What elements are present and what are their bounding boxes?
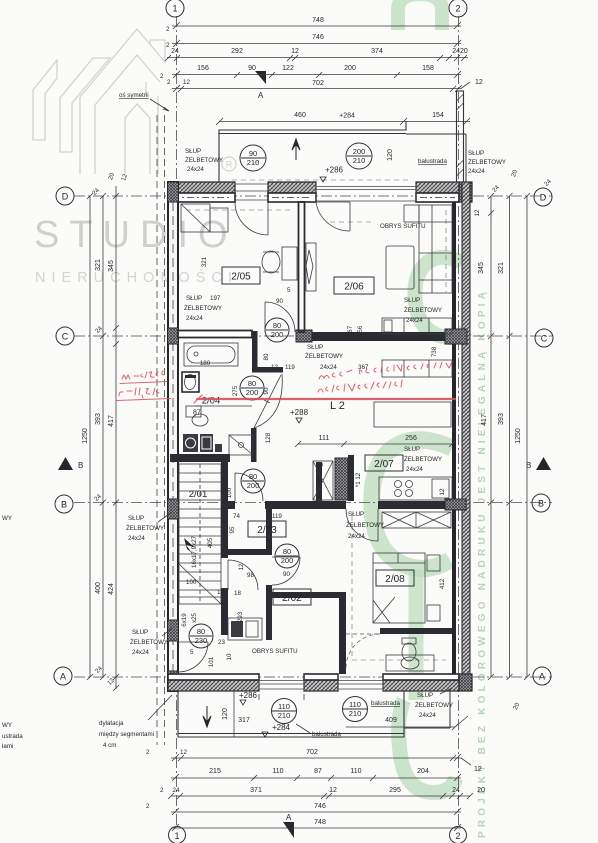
svg-text:24x24: 24x24 <box>468 168 485 175</box>
svg-text:80: 80 <box>197 627 205 636</box>
top dim row 24 292 12 374 2420 <box>167 57 468 59</box>
room label 2/06 <box>334 277 374 294</box>
red note left U=11,3 <box>119 388 159 398</box>
wardrobe X 2/08 <box>382 512 451 528</box>
svg-text:C: C <box>541 334 548 344</box>
grid circle B right <box>532 494 550 512</box>
coffee table 2/06 <box>386 246 414 289</box>
svg-text:746: 746 <box>312 34 324 41</box>
logo right slope <box>146 82 158 174</box>
bath2 door dashed arc <box>346 634 380 668</box>
svg-text:12: 12 <box>475 79 483 86</box>
grid line 2 vertical <box>458 16 460 828</box>
svg-text:110: 110 <box>349 700 361 709</box>
door circle 80/200 hall 2/05 <box>265 318 289 342</box>
W1 column block mid <box>296 330 312 342</box>
door circle 90/210 balcony <box>240 145 266 171</box>
red note left m=76 <box>122 371 164 379</box>
svg-text:B: B <box>61 500 67 510</box>
svg-text:345: 345 <box>108 260 115 272</box>
svg-text:409: 409 <box>385 717 397 724</box>
svg-text:20: 20 <box>477 787 485 794</box>
svg-text:1: 1 <box>172 4 177 14</box>
svg-text:87: 87 <box>314 768 322 775</box>
room label 2/03 <box>248 521 286 537</box>
svg-text:80: 80 <box>273 321 281 330</box>
svg-text:293: 293 <box>237 611 244 622</box>
bottom wall corner block <box>459 674 472 691</box>
bottom dim row 215 110 87 110 204 <box>171 777 461 779</box>
svg-text:80: 80 <box>249 472 257 481</box>
right wall inner leaf <box>452 202 456 674</box>
svg-text:200: 200 <box>247 481 260 490</box>
svg-text:18: 18 <box>234 590 241 597</box>
svg-text:111: 111 <box>319 435 330 442</box>
room label 2/07 <box>365 455 403 471</box>
svg-text:230: 230 <box>195 636 208 645</box>
axis D dash-dot <box>74 195 552 197</box>
svg-text:400: 400 <box>95 582 102 594</box>
grid line 1 vertical <box>176 16 178 828</box>
svg-text:1: 1 <box>174 831 179 841</box>
left wall column block at C <box>168 328 179 344</box>
svg-text:210: 210 <box>353 156 366 165</box>
svg-text:95: 95 <box>229 526 236 533</box>
top dim row 702 <box>172 88 461 90</box>
grid circle D right <box>534 188 552 206</box>
svg-text:2: 2 <box>160 787 164 794</box>
door circle 110/210 terrace left <box>272 699 297 724</box>
svg-text:5: 5 <box>190 649 194 656</box>
green glyph stem <box>409 570 424 700</box>
svg-text:SŁUP: SŁUP <box>132 629 148 636</box>
svg-text:393: 393 <box>95 413 102 425</box>
door arc 2/08 <box>346 509 378 541</box>
shower corner <box>229 435 253 455</box>
svg-text:12: 12 <box>329 787 337 794</box>
svg-text:SŁUP: SŁUP <box>185 148 201 155</box>
svg-text:74: 74 <box>233 513 240 520</box>
svg-text:2: 2 <box>455 4 460 14</box>
grid circle D left <box>56 187 74 205</box>
svg-text:SŁUP: SŁUP <box>404 297 420 304</box>
svg-text:2: 2 <box>455 831 460 841</box>
bottom dim row 746 <box>171 811 461 813</box>
svg-text:4 cm: 4 cm <box>103 742 116 749</box>
svg-text:393: 393 <box>498 413 505 425</box>
top wall segment 3 hatched <box>416 182 459 202</box>
svg-text:101: 101 <box>208 656 215 667</box>
svg-text:292: 292 <box>231 48 243 55</box>
svg-text:80: 80 <box>283 547 291 556</box>
room label 2/05 <box>222 267 260 284</box>
red ink group <box>117 362 455 403</box>
kitchen dims 111 256 <box>298 443 452 445</box>
door arc top room 2/05 <box>235 202 268 235</box>
svg-text:2: 2 <box>166 42 170 49</box>
svg-text:748: 748 <box>312 17 324 24</box>
svg-text:5: 5 <box>287 287 291 294</box>
svg-text:2: 2 <box>160 73 164 80</box>
kitchen table 2/07 <box>374 402 451 427</box>
up arrow balcony <box>292 139 300 160</box>
W6 column block right end <box>445 499 466 510</box>
top wall corner block <box>459 182 472 202</box>
svg-text:210: 210 <box>247 158 260 167</box>
svg-text:R: R <box>226 160 233 170</box>
laundry blocks under 2/02 <box>228 618 262 640</box>
sideboard cabinets 2/06 <box>382 318 452 334</box>
svg-text:SŁUP: SŁUP <box>348 511 364 518</box>
svg-text:ŻELBETOWY: ŻELBETOWY <box>404 456 442 463</box>
svg-text:SŁUP: SŁUP <box>186 295 202 302</box>
svg-text:405: 405 <box>207 537 214 548</box>
svg-text:197: 197 <box>210 295 221 302</box>
logo chevron 1 <box>33 60 57 140</box>
grid circle C left <box>56 327 74 345</box>
interior wall W3 vertical stairs right <box>221 462 228 558</box>
wc 2/04 <box>192 414 208 426</box>
svg-text:+284: +284 <box>272 723 291 732</box>
room label 2/08 <box>376 570 414 586</box>
svg-text:+286: +286 <box>325 166 344 175</box>
top dim row 156 90 122 200 158 <box>172 74 461 76</box>
svg-text:119: 119 <box>272 513 282 520</box>
svg-text:128: 128 <box>265 432 272 443</box>
washbasin counter bath2 <box>386 655 434 671</box>
svg-text:295: 295 <box>389 787 401 794</box>
svg-text:100: 100 <box>186 579 197 586</box>
right dim col 345 417 <box>490 196 492 677</box>
kitchen counter lower with stove <box>379 477 452 500</box>
87 box bath <box>186 406 201 417</box>
svg-text:ŻELBETOWY: ŻELBETOWY <box>126 525 164 532</box>
svg-text:24x24: 24x24 <box>348 533 365 540</box>
svg-text:80: 80 <box>263 353 270 360</box>
svg-text:345: 345 <box>478 262 485 274</box>
svg-text:ŻELBETOWY: ŻELBETOWY <box>415 702 453 709</box>
svg-text:417: 417 <box>481 414 488 426</box>
terrace divider line <box>233 691 235 737</box>
svg-text:60: 60 <box>316 462 323 469</box>
left wall <box>168 182 178 691</box>
red underline main <box>197 398 455 400</box>
top balcony outline <box>219 121 406 182</box>
svg-text:90: 90 <box>248 65 256 72</box>
green watermark group <box>372 0 488 838</box>
axis C dash-dot <box>74 335 552 337</box>
door circle 80/200 bath <box>240 376 264 400</box>
axis A dash-dot <box>74 676 552 678</box>
chair 2/05 <box>262 251 280 273</box>
svg-text:90: 90 <box>283 571 290 578</box>
svg-text:100: 100 <box>226 487 233 498</box>
nightstand lower 2/08 <box>427 605 440 621</box>
green glyph top <box>398 0 442 30</box>
top dim row 748 <box>172 25 461 27</box>
interior wall W4 door head stub <box>252 367 283 373</box>
svg-text:180: 180 <box>200 360 211 367</box>
svg-text:2/08: 2/08 <box>385 574 405 585</box>
svg-text:2420: 2420 <box>452 48 468 55</box>
svg-text:154: 154 <box>432 112 444 119</box>
svg-text:balustrada: balustrada <box>418 158 447 165</box>
furniture group <box>178 139 452 727</box>
door arc 2/05 to hall <box>265 302 295 332</box>
interior wall W10 vertical kitchen left <box>316 462 322 501</box>
wardrobe 2/05 <box>181 204 210 232</box>
svg-text:90: 90 <box>249 149 257 158</box>
door arc hall to 2/03 <box>235 473 263 501</box>
svg-text:412: 412 <box>439 578 446 589</box>
grid circle A left <box>54 667 72 685</box>
svg-text:12: 12 <box>271 364 278 371</box>
couch 2/06 <box>419 205 452 293</box>
svg-text:12: 12 <box>474 209 481 216</box>
svg-text:2: 2 <box>167 79 171 86</box>
interior wall W4 vertical bath right <box>252 331 258 368</box>
sink kitchenette dark <box>200 434 213 452</box>
top wall segment 1 hatched <box>168 182 235 202</box>
bottom dim row 24 371 12 295 24 20 <box>171 795 470 797</box>
svg-text:748: 748 <box>314 819 326 826</box>
svg-text:OBRYS SUFITU: OBRYS SUFITU <box>252 648 298 655</box>
svg-text:oś symetrii: oś symetrii <box>119 92 149 99</box>
svg-text:374: 374 <box>371 48 383 55</box>
svg-text:ŻELBETOWY: ŻELBETOWY <box>346 522 384 529</box>
svg-text:między segmentami: między segmentami <box>99 731 154 738</box>
svg-text:256: 256 <box>405 435 417 442</box>
interior wall W12 horizontal 2/02 bottom <box>272 592 346 598</box>
svg-text:746: 746 <box>314 803 326 810</box>
bottom window opening 110 left glazing <box>259 674 304 691</box>
svg-text:367: 367 <box>347 325 354 336</box>
grid circle 1 bottom <box>169 827 186 843</box>
svg-text:417: 417 <box>108 415 115 427</box>
interior wall W9 vertical 2/02 left <box>266 509 272 555</box>
top dim row 746 <box>172 43 461 45</box>
registered mark circle <box>222 157 236 171</box>
window sill bottom left <box>259 694 304 700</box>
svg-text:110: 110 <box>278 702 290 711</box>
svg-text:321: 321 <box>201 256 208 267</box>
door circle 80/200 2/02 <box>275 544 299 568</box>
svg-text:210: 210 <box>278 711 291 720</box>
svg-text:200: 200 <box>281 556 294 565</box>
svg-text:275: 275 <box>232 385 239 396</box>
interior wall W8 horizontal 2/03 bottom <box>228 549 272 555</box>
ceiling dashed 2/06 <box>330 210 450 292</box>
svg-text:12: 12 <box>291 48 299 55</box>
svg-text:+286: +286 <box>239 691 258 700</box>
svg-text:A: A <box>286 813 292 822</box>
svg-text:ŻELBETOWY: ŻELBETOWY <box>130 639 168 646</box>
left dim col 321 393 400 <box>102 196 104 677</box>
svg-text:12: 12 <box>474 766 482 773</box>
svg-text:16x17,9x27: 16x17,9x27 <box>191 535 198 568</box>
svg-text:24: 24 <box>171 48 179 55</box>
svg-text:371: 371 <box>250 787 262 794</box>
bottom wall segment 3 <box>383 674 459 691</box>
labels group <box>2 143 522 750</box>
left dim col 1250 <box>89 196 91 677</box>
kitchen wall stub <box>348 455 354 501</box>
washer kitchenette dark <box>183 434 198 452</box>
corridor door arc <box>228 560 258 590</box>
svg-text:2: 2 <box>146 803 150 810</box>
svg-text:2/02: 2/02 <box>282 593 302 604</box>
balcony railing column <box>457 91 464 182</box>
entrance door arc <box>178 642 208 672</box>
section A marker top <box>255 71 266 84</box>
svg-text:702: 702 <box>312 80 324 87</box>
svg-text:24x24: 24x24 <box>406 466 423 473</box>
interior wall W5 under bath <box>170 454 230 462</box>
svg-text:23: 23 <box>218 639 225 646</box>
svg-text:18: 18 <box>217 589 224 596</box>
section B marker left <box>58 457 73 470</box>
down arrow terrace <box>203 706 211 727</box>
door circle 80/200 2/03 <box>241 469 265 493</box>
nightstand upper 2/08 <box>427 555 440 571</box>
svg-text:2/01: 2/01 <box>189 489 208 500</box>
svg-text:12: 12 <box>439 488 446 495</box>
toilet bath2 <box>402 638 416 644</box>
stairs 2/01 <box>179 464 221 604</box>
svg-text:110: 110 <box>350 768 361 775</box>
svg-text:2/03: 2/03 <box>257 525 277 536</box>
svg-text:256: 256 <box>357 325 364 336</box>
svg-text:ŻELBETOWY: ŻELBETOWY <box>184 305 222 312</box>
svg-text:12: 12 <box>183 79 190 86</box>
svg-text:+288: +288 <box>290 408 309 417</box>
svg-text:SŁUP: SŁUP <box>404 446 420 453</box>
svg-text:90: 90 <box>276 298 283 305</box>
door circle 80/230 entrance <box>189 624 213 648</box>
ceiling dashed 2/05 <box>186 209 294 211</box>
svg-text:D: D <box>62 192 69 202</box>
bottom dim row 748 <box>171 827 461 829</box>
svg-text:STUDIO: STUDIO <box>34 214 238 256</box>
svg-text:119: 119 <box>285 364 295 371</box>
svg-text:24: 24 <box>173 787 180 794</box>
left wall column block top corner <box>168 182 179 202</box>
svg-text:12: 12 <box>180 749 187 756</box>
green glyph bottom bowl <box>399 700 456 792</box>
neighbour wall dashed double line <box>156 115 158 745</box>
svg-text:2/05: 2/05 <box>231 272 251 283</box>
bed 2/08 <box>373 553 425 623</box>
interior wall W14 bath2 top <box>380 628 452 634</box>
svg-text:2: 2 <box>146 749 150 756</box>
gray watermark group <box>33 29 238 286</box>
svg-text:24x24: 24x24 <box>132 649 149 656</box>
logo chevron 2 <box>60 58 110 152</box>
svg-text:C: C <box>62 332 69 342</box>
svg-text:OBRYS SUFITU: OBRYS SUFITU <box>380 223 426 230</box>
left wall column block bottom corner <box>168 671 179 691</box>
svg-text:6x19: 6x19 <box>181 613 188 627</box>
svg-text:A: A <box>60 672 66 682</box>
svg-text:120: 120 <box>387 149 394 161</box>
svg-text:B: B <box>538 499 544 509</box>
section A marker bottom <box>283 822 294 838</box>
bottom terrace outline <box>178 691 404 737</box>
svg-text:PROJEKT BEZ KOLOROWEGO NADRUKU: PROJEKT BEZ KOLOROWEGO NADRUKU JEST NIEL… <box>477 288 488 838</box>
left dim col 345 417 424 <box>115 186 117 689</box>
svg-text:ŻELBETOWY: ŻELBETOWY <box>404 307 442 314</box>
svg-text:10: 10 <box>226 653 233 660</box>
svg-text:2/07: 2/07 <box>374 459 394 470</box>
svg-text:dylatacja: dylatacja <box>99 720 124 727</box>
door arc balcony 2/06 <box>316 202 350 231</box>
svg-text:738: 738 <box>431 346 438 357</box>
svg-text:200: 200 <box>344 65 356 72</box>
grid circle A right <box>533 667 551 685</box>
tv bench 2/06 <box>306 243 316 291</box>
red note line 1 kociol <box>319 362 452 379</box>
svg-text:321: 321 <box>95 259 102 271</box>
svg-text:SŁUP: SŁUP <box>128 515 144 522</box>
svg-text:90: 90 <box>263 387 270 394</box>
svg-text:B: B <box>78 461 83 470</box>
left wall column block lower <box>168 620 179 641</box>
svg-text:80: 80 <box>248 379 256 388</box>
ceiling dashed 2/08 <box>352 516 446 660</box>
svg-text:2: 2 <box>166 26 170 33</box>
svg-text:D: D <box>540 193 547 203</box>
svg-text:317: 317 <box>238 717 250 724</box>
bottom dim row 702 <box>171 757 461 759</box>
bottom wall segment 2 <box>304 674 338 691</box>
svg-text:24x24: 24x24 <box>128 535 145 542</box>
washbasin 2/04 <box>182 372 199 392</box>
svg-text:+284: +284 <box>339 113 355 120</box>
svg-text:24x24: 24x24 <box>419 712 436 719</box>
svg-text:NIERUCHOMOŚCI: NIERUCHOMOŚCI <box>35 268 238 286</box>
svg-text:24x24: 24x24 <box>320 364 337 371</box>
svg-text:2/06: 2/06 <box>344 282 364 293</box>
W1 column block right end <box>445 329 467 344</box>
svg-text:110: 110 <box>272 768 283 775</box>
svg-text:98: 98 <box>247 572 254 579</box>
axis B dash-dot <box>74 502 552 504</box>
svg-text:2/04: 2/04 <box>202 396 221 407</box>
grid circle 2 bottom <box>450 827 467 843</box>
svg-text:SŁUP: SŁUP <box>307 344 323 351</box>
svg-text:200: 200 <box>246 388 259 397</box>
svg-text:460: 460 <box>294 112 306 119</box>
svg-text:SŁUP: SŁUP <box>468 150 484 157</box>
stairs walk arrow <box>184 538 199 562</box>
interior wall W1 horizontal left <box>178 331 252 338</box>
green glyph G upper right <box>415 257 466 337</box>
svg-text:204: 204 <box>417 768 429 775</box>
svg-text:ŻELBETOWY: ŻELBETOWY <box>185 157 223 164</box>
dimension rows group <box>82 17 553 831</box>
door arc bath 2/04 <box>254 374 282 428</box>
top window opening 200 glazing <box>316 182 416 202</box>
bathtub 2/04 <box>184 343 238 366</box>
logo house outline <box>80 29 165 174</box>
svg-text:ustrada: ustrada <box>2 733 23 740</box>
svg-text:ŻELBETOWY: ŻELBETOWY <box>305 353 343 360</box>
building walls group <box>168 91 473 737</box>
svg-text:SŁUP: SŁUP <box>417 692 433 699</box>
svg-text:122: 122 <box>282 65 294 72</box>
interior wall W6 horizontal mid <box>221 501 235 509</box>
svg-text:200: 200 <box>353 147 366 156</box>
